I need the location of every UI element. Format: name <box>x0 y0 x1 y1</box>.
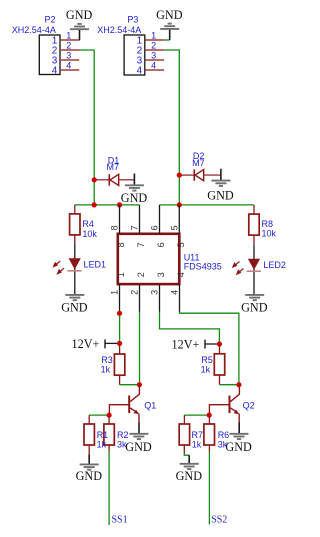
ground GND (D2) <box>207 169 234 203</box>
wire R8 to LED2 / ground (black) <box>253 244 255 295</box>
resistor R6 3k <box>204 415 229 451</box>
svg-text:2: 2 <box>130 290 140 295</box>
svg-text:3k: 3k <box>117 439 127 449</box>
svg-text:GND: GND <box>125 440 152 454</box>
junction (Q2 base node) <box>207 413 212 418</box>
wire pin4 to Q2 collector node <box>180 312 239 385</box>
svg-text:GND: GND <box>225 440 252 454</box>
resistor R2 3k <box>104 415 129 451</box>
svg-text:4: 4 <box>151 60 156 70</box>
IC U11 FDS4935 <box>118 234 222 284</box>
wire R2 bottom to SS1 <box>108 451 110 525</box>
wire right bus (pins 6-5 / R8) <box>160 204 254 206</box>
svg-text:10k: 10k <box>82 229 97 239</box>
LED LED2 <box>233 259 286 274</box>
svg-text:12V+: 12V+ <box>172 337 200 351</box>
svg-text:5: 5 <box>169 225 179 230</box>
junction (Q1 collector node) <box>137 382 142 387</box>
svg-text:2: 2 <box>66 40 71 50</box>
svg-text:GND: GND <box>176 469 203 483</box>
pin 1 (bottom) <box>110 272 126 312</box>
svg-text:4: 4 <box>66 60 71 70</box>
junction (12V+ right) <box>217 341 222 346</box>
resistor R4 10k <box>70 205 98 244</box>
wire R7 to ground elbow <box>184 454 189 456</box>
svg-text:GND: GND <box>156 8 183 22</box>
svg-text:6: 6 <box>150 225 160 230</box>
svg-text:1k: 1k <box>201 365 211 375</box>
wire pin1 to 12V+ node <box>119 312 121 344</box>
svg-text:SS2: SS2 <box>211 515 227 526</box>
junction (pin 1) <box>117 311 122 316</box>
svg-text:7: 7 <box>136 242 146 247</box>
pin 2 (bottom) <box>130 272 146 312</box>
connector P3 (XH2.54-4A) <box>97 14 164 76</box>
svg-text:GND: GND <box>66 8 93 22</box>
wire left bus (R4 / pins 8-7) <box>75 204 140 206</box>
pin 4 (bottom) <box>170 272 186 312</box>
svg-text:4: 4 <box>170 290 180 295</box>
wire pin3 to 12V+ right node <box>160 312 220 344</box>
wire R3 bottom to Q1 collector node <box>120 384 140 386</box>
junction (D2 anode tap) <box>177 173 182 178</box>
transistor Q1 (NPN) <box>109 385 156 423</box>
svg-text:GND: GND <box>121 191 148 205</box>
svg-text:4: 4 <box>137 66 143 77</box>
svg-text:P3: P3 <box>127 14 138 24</box>
svg-text:5: 5 <box>176 242 186 247</box>
svg-text:12V+: 12V+ <box>72 337 100 351</box>
svg-text:SS1: SS1 <box>112 515 128 526</box>
svg-text:1k: 1k <box>97 439 107 449</box>
svg-text:Q1: Q1 <box>144 401 156 411</box>
svg-text:M7: M7 <box>107 162 120 172</box>
svg-text:GND: GND <box>76 469 103 483</box>
pin 6 (top) <box>150 205 167 248</box>
svg-text:1: 1 <box>116 272 126 277</box>
ground GND (Q2 emitter) <box>225 423 252 455</box>
svg-text:8: 8 <box>110 225 120 230</box>
svg-text:10k: 10k <box>262 228 277 238</box>
pin 8 (top) <box>110 205 127 248</box>
junction (P2.2 on left bus) <box>92 202 97 207</box>
svg-text:1: 1 <box>151 30 156 40</box>
resistor R5 1k <box>201 344 225 385</box>
diode D2 M7 <box>179 151 220 181</box>
svg-text:R4: R4 <box>82 219 94 229</box>
junction (D1 anode tap) <box>92 177 97 182</box>
wire R6 bottom to SS2 <box>208 451 210 525</box>
svg-text:1k: 1k <box>192 439 202 449</box>
svg-text:1k: 1k <box>101 365 111 375</box>
junction (12V+ left) <box>117 341 122 346</box>
svg-text:2: 2 <box>151 40 156 50</box>
connector P2 (XH2.54-4A) <box>12 14 80 76</box>
svg-text:Q2: Q2 <box>243 401 255 411</box>
wire pin2 to Q1 collector node <box>139 312 141 385</box>
svg-text:M7: M7 <box>192 158 205 168</box>
ground GND (Q1 emitter) <box>125 423 152 455</box>
svg-text:2: 2 <box>136 272 146 277</box>
wire P3.2 net (down to right bus) <box>164 50 179 205</box>
svg-text:3: 3 <box>156 272 166 277</box>
junction (Q2 collector node) <box>236 382 241 387</box>
ground GND (P3 pin 1) <box>156 8 183 40</box>
svg-text:3: 3 <box>150 290 160 295</box>
wire R1 to base node (left) <box>89 414 109 416</box>
wire P3.1 to ground stub <box>164 39 169 41</box>
svg-text:XH2.54-4A: XH2.54-4A <box>12 25 56 35</box>
resistor R3 1k <box>101 343 125 384</box>
svg-text:GND: GND <box>241 301 268 315</box>
svg-text:1: 1 <box>66 30 71 40</box>
wire P2.2 net (down to left bus) <box>80 50 94 205</box>
svg-text:6: 6 <box>156 242 166 247</box>
resistor R7 1k <box>179 415 203 453</box>
svg-text:1: 1 <box>110 290 120 295</box>
junction (pin 5 on right bus) <box>177 202 182 207</box>
node 12V+ (right) <box>172 337 220 351</box>
node 12V+ (left) <box>72 337 120 351</box>
svg-text:8: 8 <box>116 242 126 247</box>
pin 3 (bottom) <box>150 272 166 312</box>
pin 5 (top) <box>169 205 186 248</box>
junction (Q1 base node) <box>107 413 112 418</box>
wire R7 to base node (right) <box>184 414 209 416</box>
ground GND (R1 bottom) <box>76 455 103 484</box>
transistor Q2 (NPN) <box>209 385 254 423</box>
ground GND (R7 bottom) <box>176 455 203 483</box>
ground GND (D1) <box>121 174 148 206</box>
svg-text:GND: GND <box>61 301 88 315</box>
resistor R8 10k <box>249 205 277 244</box>
resistor R1 1k <box>84 415 108 454</box>
ground GND (P2 pin 1) <box>66 8 93 40</box>
ground GND (LED1 cathode) <box>65 294 84 296</box>
LED LED1 <box>54 258 106 273</box>
svg-text:GND: GND <box>207 188 234 202</box>
svg-text:P2: P2 <box>45 14 56 24</box>
svg-text:LED1: LED1 <box>84 259 107 269</box>
svg-text:7: 7 <box>130 225 140 230</box>
wire R5 bottom to Q2 collector node <box>220 384 239 386</box>
svg-text:3: 3 <box>66 50 71 60</box>
ground GND (LED2 cathode) <box>245 294 264 296</box>
diode D1 M7 <box>94 155 134 185</box>
svg-text:4: 4 <box>52 66 58 77</box>
svg-text:XH2.54-4A: XH2.54-4A <box>97 25 141 35</box>
svg-text:4: 4 <box>176 272 186 277</box>
svg-text:FDS4935: FDS4935 <box>184 262 222 272</box>
pin 7 (top) <box>130 205 147 248</box>
junction (pin 8 on left bus) <box>117 202 122 207</box>
wire R4 to LED1 / ground (black) <box>74 244 76 295</box>
svg-text:3k: 3k <box>218 439 228 449</box>
svg-text:LED2: LED2 <box>263 260 286 270</box>
svg-text:3: 3 <box>151 50 156 60</box>
